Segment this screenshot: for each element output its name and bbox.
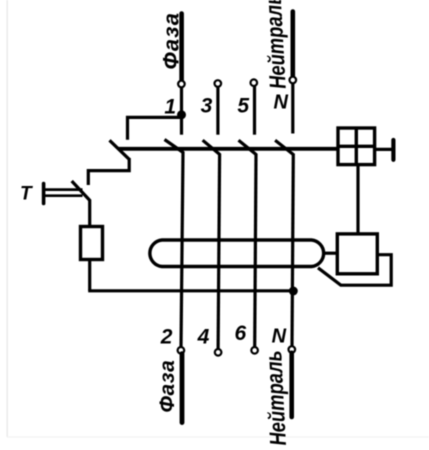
wire CT secondary to relay K1 [325,252,338,255]
terminal 2 [178,347,185,354]
svg-text:6: 6 [234,322,246,345]
terminal 1 [178,81,185,88]
terminal N bottom [289,346,296,353]
terminal 5 [251,79,258,86]
test button rod (double line) [44,190,83,196]
svg-text:1: 1 [164,96,176,119]
current transformer toroid CT [150,240,324,267]
wire pole 5-6 conductor [255,154,256,348]
terminal 4 [215,349,222,356]
actuator box (mechanism) [338,128,375,165]
svg-text:N: N [273,92,288,114]
terminal 3 [215,80,222,87]
wire pole 3 upper stub [216,84,219,135]
svg-text:Нейтраль: Нейтраль [261,0,292,90]
svg-text:N: N [272,325,287,347]
wire pole 1-2 conductor [181,152,183,349]
switch blade test button [72,181,90,201]
end-stop plate [391,140,395,160]
wire phase lead bottom [180,354,185,423]
relay K1 (trip coil) [337,234,377,274]
wire pole N upper stub [291,80,294,134]
svg-text:5: 5 [237,94,249,117]
svg-text:4: 4 [197,325,210,348]
switch blade pole 5 [239,140,257,154]
wire neutral lead top (Нейтраль) [290,12,295,81]
resistor R (test resistor) [81,227,103,260]
wire pole 5 upper stub [253,83,256,135]
wire actuator to end-stop [375,148,394,151]
junction node N rail [289,287,298,296]
wire pole 3-4 conductor [218,154,220,350]
junction node 1 (test tap) [177,110,186,119]
switch blade pole N [275,140,293,154]
wire pole 1 upper stub [180,84,183,135]
svg-text:Фаза: Фаза [156,360,179,413]
wire tap from node 1 to test contact [128,117,182,139]
linkage bar [118,147,338,151]
svg-text:T: T [20,184,33,205]
wire resistor to bottom rail [88,260,91,291]
wire CT secondary return loop [318,255,391,286]
wire actuator to relay K1 [356,165,359,234]
switch blade pole 1 [165,140,184,153]
wire phase lead top [179,14,184,85]
terminal N top [290,77,297,84]
wire neutral lead bottom [289,353,294,417]
switch blade pole 3 [203,140,220,154]
svg-text:3: 3 [201,95,213,118]
svg-text:Фаза: Фаза [159,12,184,70]
test button plate [42,184,46,204]
terminal 6 [251,347,258,354]
svg-text:2: 2 [160,325,173,348]
wire button to resistor R [88,200,91,228]
wire pole N conductor [292,154,293,347]
svg-text:Нейтраль: Нейтраль [261,350,291,446]
switch blade test contact (upper) [110,140,130,159]
wire test contact step to button [88,158,129,185]
wire test return rail [88,289,293,292]
